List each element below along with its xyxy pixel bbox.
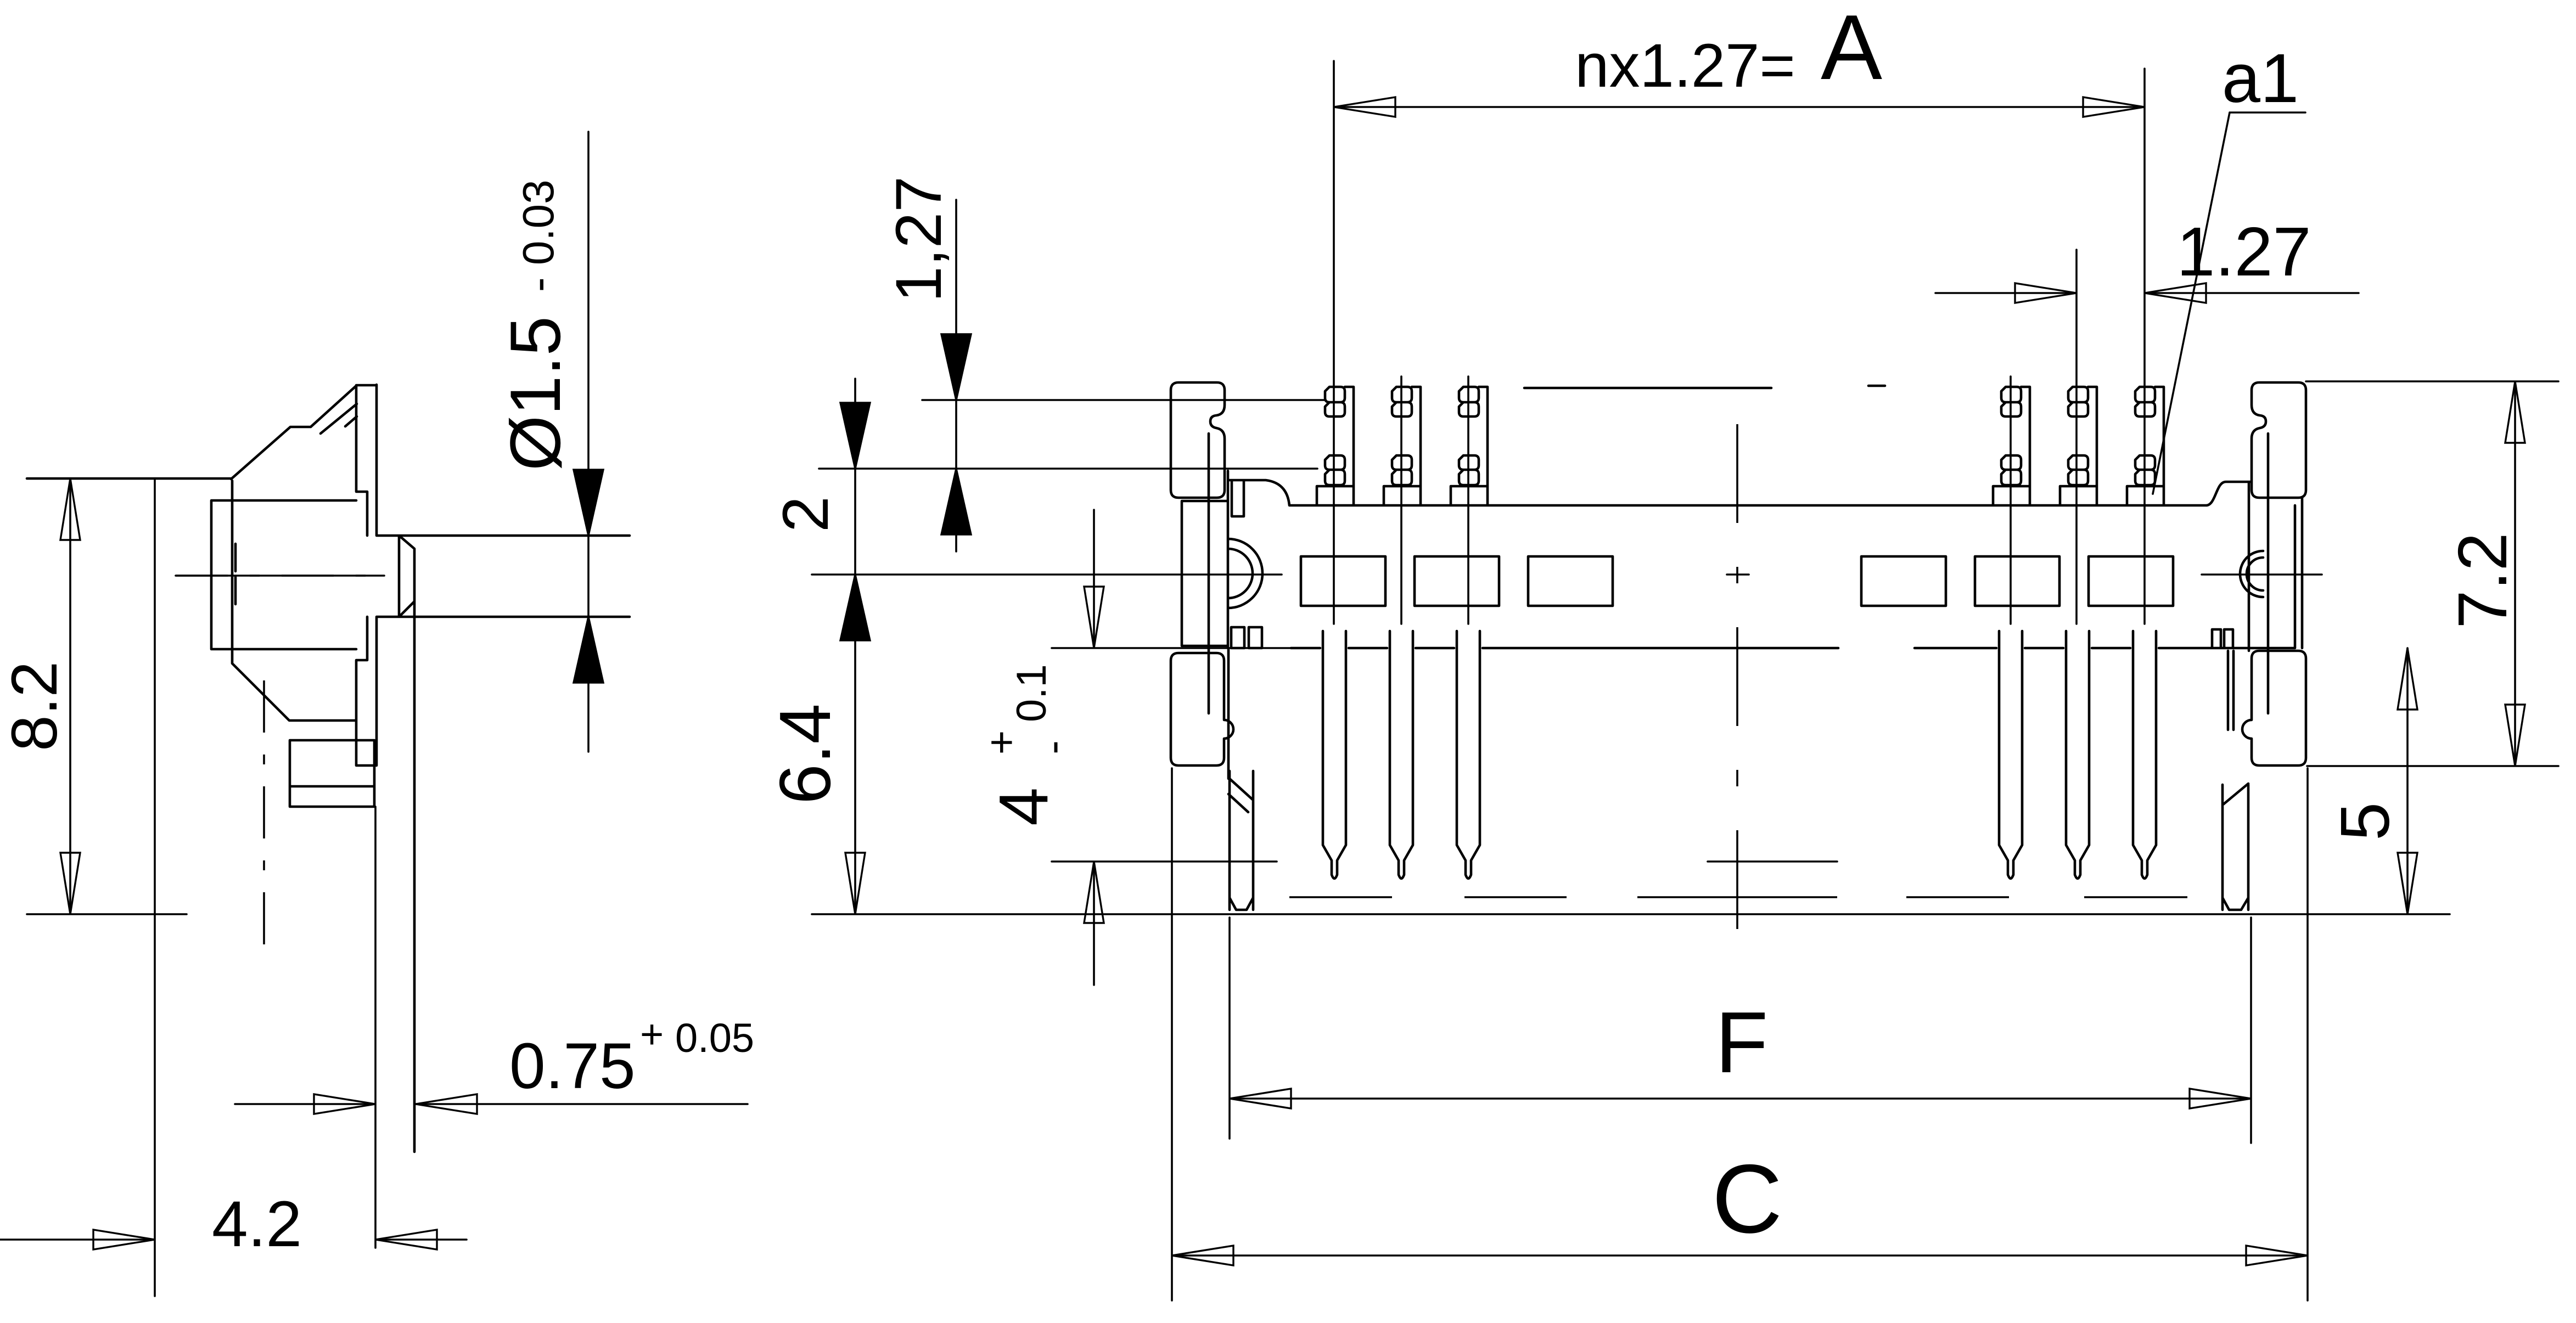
svg-text:+: + [978,730,1025,755]
svg-text:+: + [640,1011,664,1057]
svg-text:-: - [1030,740,1076,754]
svg-text:8.2: 8.2 [0,661,71,751]
svg-text:a1: a1 [2222,40,2299,117]
svg-text:F: F [1715,994,1769,1091]
svg-text:1,27: 1,27 [883,176,955,302]
svg-text:0.05: 0.05 [675,1015,754,1061]
svg-text:4.2: 4.2 [212,1188,302,1260]
svg-text:0.1: 0.1 [1008,664,1055,722]
svg-text:A: A [1821,0,1882,99]
svg-text:Ø1.5: Ø1.5 [495,316,575,471]
svg-text:4: 4 [985,787,1062,826]
svg-text:nx1.27=: nx1.27= [1575,31,1795,100]
svg-text:C: C [1712,1144,1783,1253]
svg-text:- 0.03: - 0.03 [514,179,563,292]
svg-text:7.2: 7.2 [2444,532,2521,628]
svg-text:1.27: 1.27 [2176,213,2311,290]
svg-text:5: 5 [2326,802,2404,841]
svg-text:2: 2 [770,496,842,532]
svg-text:0.75: 0.75 [509,1030,636,1102]
svg-text:6.4: 6.4 [765,703,845,804]
